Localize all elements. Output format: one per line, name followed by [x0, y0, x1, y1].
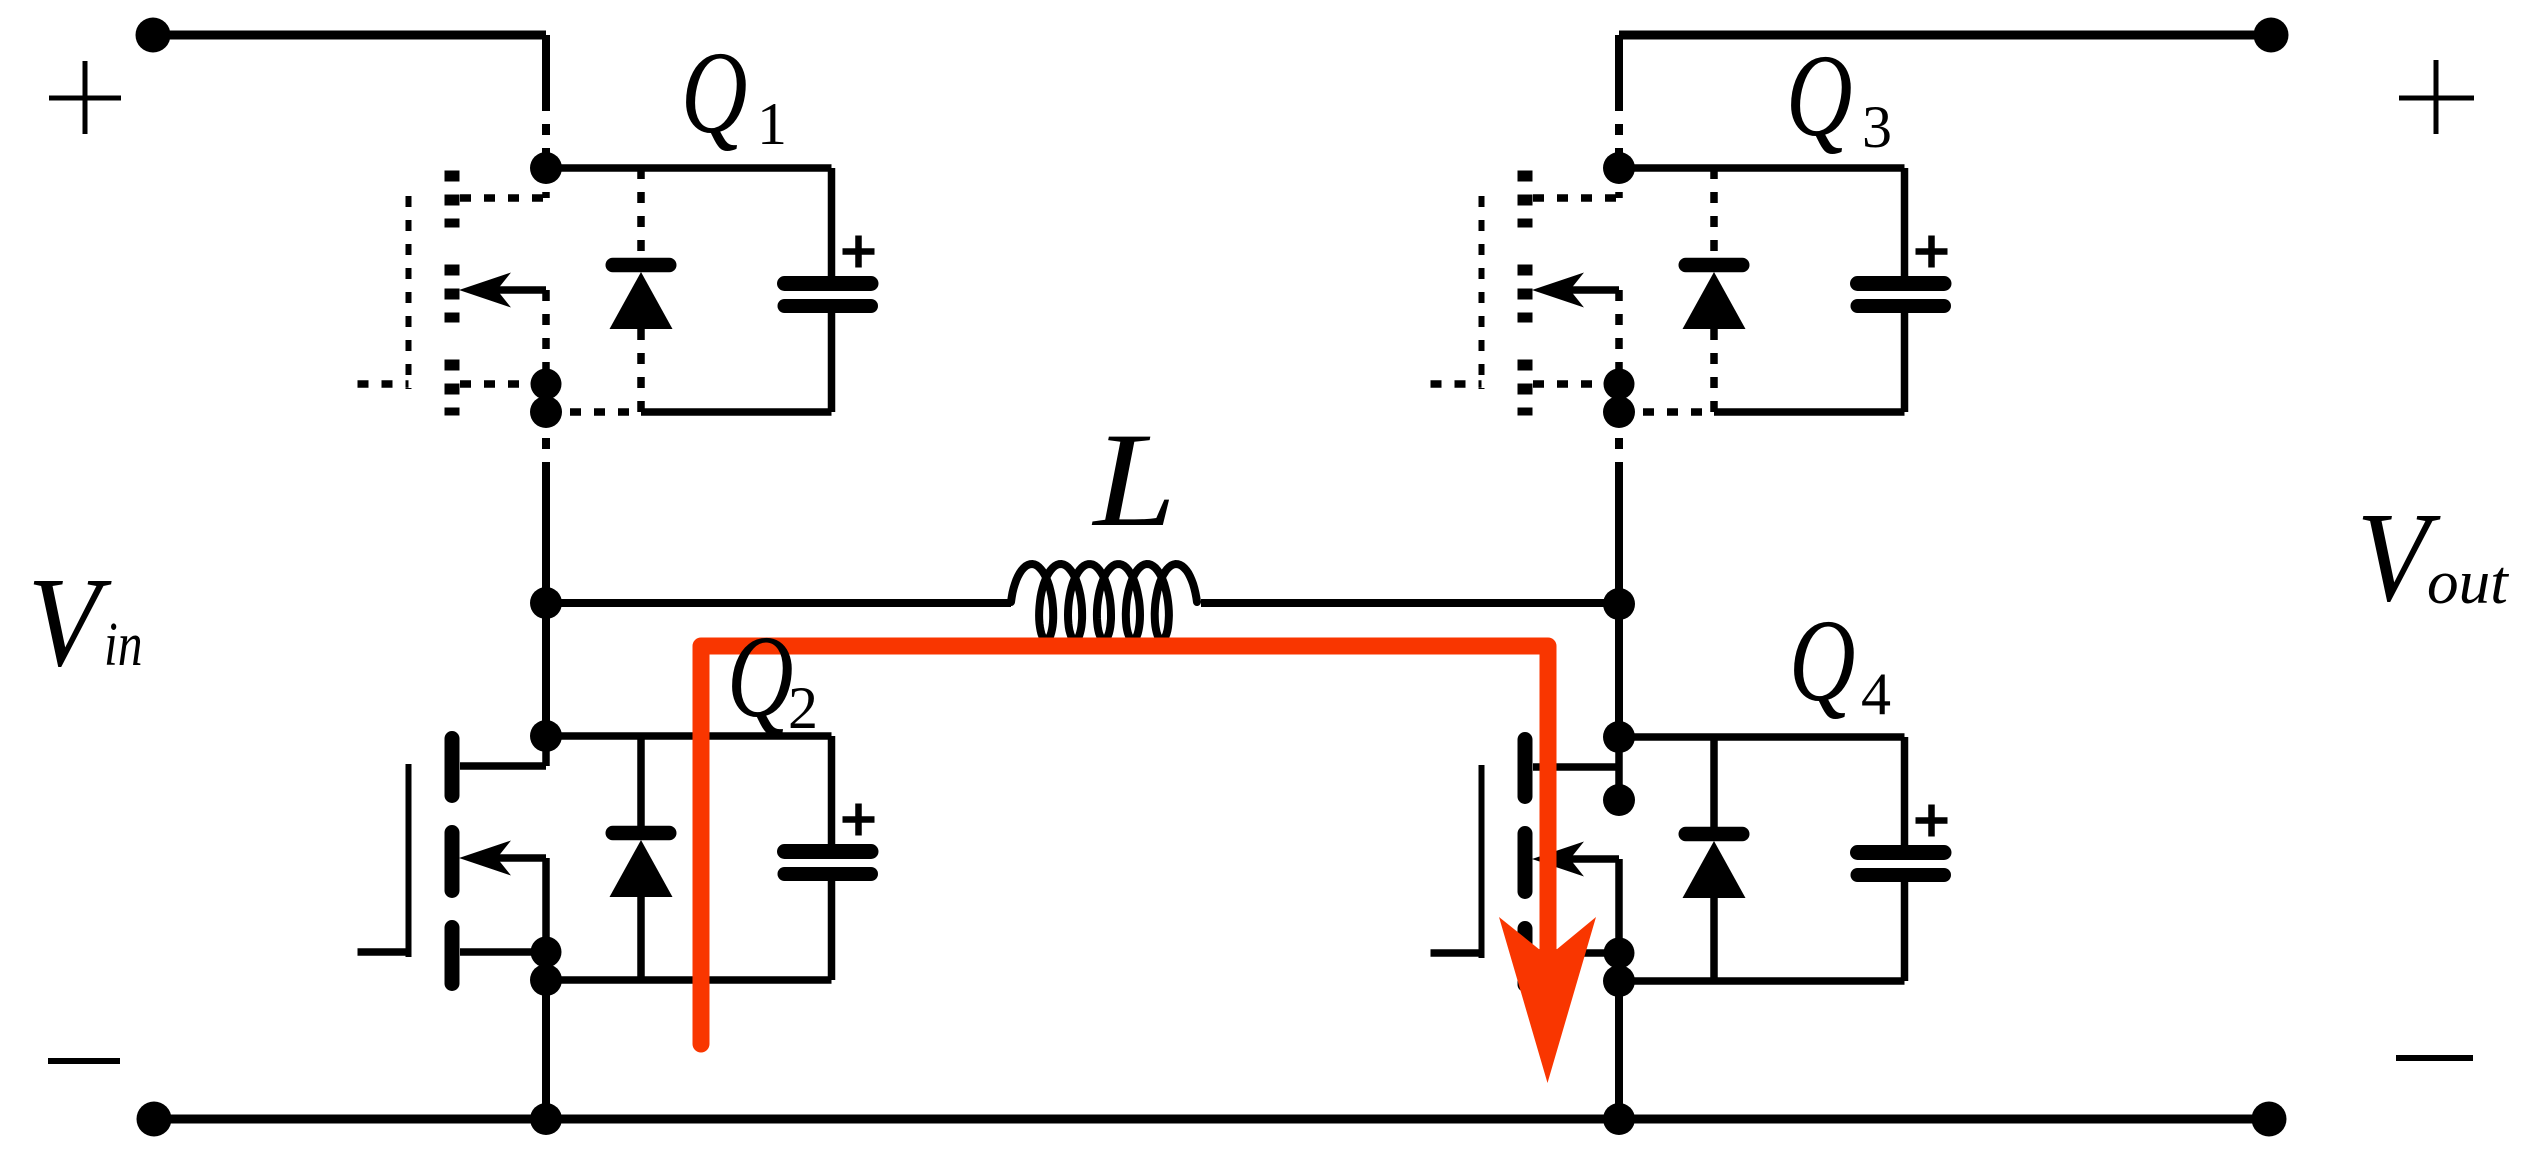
- polarity mark + of Q4 snubber cap: [1916, 805, 1948, 837]
- svg-text:V: V: [28, 551, 113, 693]
- current path (red): through Q2, L, into Q4: [701, 646, 1548, 1044]
- snubber capacitor of Q1: [785, 168, 872, 412]
- node: Q2 drain junction: [530, 720, 562, 752]
- snubber capacitor of Q4: [1858, 737, 1945, 981]
- wire: top-left rail (Vin+ to Q1 drain): [153, 31, 546, 40]
- node: Q3 source junction: [1603, 396, 1635, 428]
- wire: left leg down to Q1 (solid part): [542, 35, 550, 100]
- wire: Q3 drain node to snubber cap: [1619, 164, 1905, 172]
- label Vin: [28, 551, 143, 693]
- node: Q1 source junction: [530, 396, 562, 428]
- wire: Q2 drain node to snubber cap: [546, 732, 832, 740]
- inductor L: [1011, 564, 1197, 640]
- wire: Q1 source node to body-diode anode (dashed): [546, 408, 641, 416]
- svg-text:2: 2: [788, 675, 818, 741]
- terminal node: Vin positive: [136, 18, 171, 53]
- body diode of Q4: [1683, 737, 1746, 981]
- wire: Q1 body-diode anode to snubber cap bottom: [641, 408, 832, 416]
- node: Q3 drain junction: [1603, 152, 1635, 184]
- wire: right leg down to Q3 (solid part): [1615, 35, 1623, 100]
- svg-text:Q: Q: [1786, 30, 1852, 160]
- wire: Q3 source down to switch node (dashed part): [1615, 414, 1623, 470]
- wire: Q1 source down to switch node (solid part): [542, 470, 550, 604]
- svg-text:1: 1: [757, 91, 787, 157]
- body diode of Q1: [610, 168, 673, 412]
- node: Q4 source junction: [1603, 965, 1635, 997]
- wire: Q4 drain node to snubber cap: [1619, 733, 1905, 741]
- node: Q4 drain pin junction: [1603, 784, 1635, 816]
- snubber capacitor of Q3: [1858, 168, 1945, 412]
- wire: Q2 source node to snubber cap bottom: [546, 976, 832, 984]
- svg-text:4: 4: [1861, 661, 1891, 727]
- node: bottom rail / Q4 source junction: [1603, 1103, 1635, 1135]
- polarity mark: Vout +: [2399, 60, 2474, 134]
- body diode of Q3: [1683, 168, 1746, 412]
- transistor Q3 (N-MOSFET, dashed = off): [1431, 168, 1620, 416]
- svg-text:3: 3: [1862, 94, 1892, 160]
- wire: Q2 source down to bottom rail: [542, 980, 550, 1119]
- svg-text:out: out: [2427, 548, 2509, 617]
- svg-text:in: in: [104, 611, 143, 679]
- wire: left leg down to Q1 (dashed part): [542, 100, 550, 155]
- label Q1: [681, 27, 787, 157]
- wire: top-right rail (Q3 drain to Vout+): [1619, 31, 2271, 40]
- wire: Q4 source node to snubber cap bottom: [1619, 977, 1905, 985]
- label Q2: [727, 611, 818, 741]
- node: left switch node (Q1/Q2 midpoint): [530, 587, 562, 619]
- wire: Q3 body-diode anode to snubber cap bottom: [1714, 408, 1905, 416]
- wire: Q4 source down to bottom rail: [1615, 981, 1623, 1119]
- label Q3: [1786, 30, 1892, 160]
- label Vout: [2357, 486, 2510, 628]
- wire: right leg down to Q3 (dashed part): [1615, 100, 1623, 155]
- node: Q2 source junction: [530, 964, 562, 996]
- svg-text:L: L: [1091, 405, 1176, 554]
- terminal node: Vout positive: [2254, 18, 2289, 53]
- polarity mark + of Q1 snubber cap: [843, 236, 875, 268]
- svg-text:Q: Q: [727, 611, 793, 741]
- wire: Q1 drain node to snubber cap: [546, 164, 832, 172]
- node: bottom rail / Q2 source junction: [530, 1103, 562, 1135]
- polarity mark: Vout -: [2396, 1055, 2473, 1061]
- transistor Q2 (N-MOSFET): [358, 736, 547, 984]
- transistor Q1 (N-MOSFET, dashed = off): [358, 168, 547, 416]
- svg-text:Q: Q: [1789, 595, 1855, 725]
- terminal node: Vout negative: [2252, 1102, 2287, 1137]
- label Q4: [1789, 595, 1891, 727]
- svg-text:Q: Q: [681, 27, 747, 157]
- wire: left switch node down to Q2 drain: [542, 603, 550, 736]
- current path arrowhead (red): [1499, 917, 1596, 1083]
- node: right switch node (Q3/Q4 midpoint): [1603, 588, 1635, 620]
- polarity mark + of Q2 snubber cap: [843, 804, 875, 836]
- node: Q3 source lead junction: [1604, 369, 1635, 400]
- node: Q4 source lead junction: [1604, 938, 1635, 969]
- node: Q1 drain junction: [530, 152, 562, 184]
- wire: bottom rail (Vin- to Vout-): [154, 1115, 2269, 1124]
- body diode of Q2: [610, 736, 673, 980]
- wire: left switch node to inductor: [546, 599, 1011, 607]
- transistor Q4 (N-MOSFET): [1431, 737, 1620, 985]
- wire: Q3 source node to body-diode anode (dashed): [1619, 408, 1714, 416]
- terminal node: Vin negative: [137, 1102, 172, 1137]
- polarity mark: Vin +: [49, 61, 121, 134]
- wire: right switch node down to Q4 drain: [1615, 604, 1623, 737]
- polarity mark: Vin -: [48, 1058, 120, 1064]
- node: Q4 drain junction: [1603, 721, 1635, 753]
- polarity mark + of Q3 snubber cap: [1916, 236, 1948, 268]
- node: Q1 source lead junction: [531, 369, 562, 400]
- wire: inductor to right switch node: [1201, 599, 1619, 607]
- wire: Q3 source down to switch node (solid part): [1615, 470, 1623, 604]
- node: Q2 source lead junction: [531, 937, 562, 968]
- snubber capacitor of Q2: [785, 736, 872, 980]
- wire: Q1 source down to switch node (dashed part): [542, 414, 550, 470]
